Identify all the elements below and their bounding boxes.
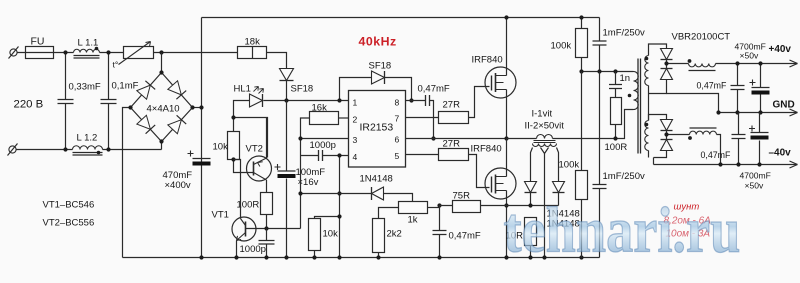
wire - bridge bottom AC feed bbox=[161, 142, 163, 150]
junction dot upper rect bbox=[664, 61, 668, 65]
svg-text:SF18: SF18 bbox=[369, 61, 392, 72]
capacitor 4700mF lower bbox=[759, 113, 761, 165]
wire - +310V top bus bbox=[202, 17, 600, 19]
wire - CT secondary center tap bbox=[541, 148, 549, 258]
capacitor 0,47mF output lower bbox=[738, 113, 740, 165]
wire - VT1 collector up to VT2 base bbox=[234, 160, 241, 219]
diode 1N4148 rectifier right bbox=[553, 182, 565, 193]
junction dot pin4/COM bbox=[337, 153, 341, 157]
svg-text:FU: FU bbox=[31, 37, 45, 48]
transformer T1 secondary lower bbox=[645, 121, 649, 151]
junction dot Q2 source sense bbox=[504, 203, 508, 207]
svg-text:×400v: ×400v bbox=[165, 180, 191, 191]
svg-text:1mF/250v: 1mF/250v bbox=[603, 171, 645, 182]
svg-text:6: 6 bbox=[395, 135, 400, 145]
junction dot sense node bbox=[437, 203, 441, 207]
arrow GND bbox=[790, 109, 798, 116]
wire - primary top to divider row bbox=[633, 71, 635, 73]
wire - 100k lower leads bbox=[581, 72, 583, 258]
svg-text:100k: 100k bbox=[551, 41, 572, 52]
bridge diode top-right arm bbox=[168, 81, 182, 95]
wire - choke lower to -40 row bbox=[717, 135, 721, 165]
transformer T1 core bbox=[638, 59, 641, 154]
wire - pin7 row bbox=[406, 117, 439, 119]
wire - sense row 75R bbox=[440, 205, 559, 207]
wire - 10R to bus bbox=[530, 246, 532, 258]
wire - pin2 to 16k bbox=[339, 117, 349, 119]
fuse FU bbox=[26, 47, 54, 59]
resistor 100R snubber bbox=[611, 98, 622, 125]
wire - Q2 drain to midpoint bbox=[506, 139, 508, 177]
capacitor 4700mF upper bbox=[760, 64, 762, 113]
svg-text:0,47mF: 0,47mF bbox=[449, 231, 481, 242]
wire - center tap to GND row bbox=[667, 94, 719, 113]
resistor 10k (lower) bbox=[309, 219, 321, 251]
wire - pin5 row bbox=[406, 154, 439, 156]
svg-text:75R: 75R bbox=[453, 191, 471, 202]
svg-text:0,47mF: 0,47mF bbox=[697, 81, 728, 91]
wire - VT2 collector to 100R bbox=[266, 180, 268, 193]
svg-text:VT2–BC556: VT2–BC556 bbox=[43, 218, 95, 229]
transistor VT1 (BC546) bbox=[232, 217, 256, 241]
wire - VT1 base row bbox=[246, 228, 301, 230]
svg-text:0,33mF: 0,33mF bbox=[69, 82, 101, 93]
svg-text:4700mF: 4700mF bbox=[740, 171, 771, 181]
capacitor 0,47mF bootstrap bbox=[426, 95, 430, 106]
wire - VT1 emitter to bus bbox=[236, 241, 238, 258]
diode SF18 bootstrap bbox=[372, 71, 385, 84]
junction dot 10k-COM bbox=[337, 214, 341, 218]
capacitor 100mF 16v Vcc bbox=[286, 101, 288, 258]
wire - clamp diode row bbox=[301, 194, 413, 202]
wire - 100R to VT1 base node bbox=[266, 215, 268, 229]
wire - 18k to SF18 anode bbox=[267, 53, 287, 69]
diode VBR lower C bbox=[661, 120, 673, 131]
svg-text:VBR20100CT: VBR20100CT bbox=[672, 32, 731, 43]
svg-text:1000p: 1000p bbox=[240, 244, 266, 255]
diode VBR lower D bbox=[661, 140, 673, 151]
arrow +40v bbox=[790, 60, 798, 67]
bridge diode bottom-left arm bbox=[137, 115, 151, 129]
wire - 10k lower to bus bbox=[314, 251, 316, 258]
svg-text:VT1: VT1 bbox=[212, 210, 229, 221]
resistor 100k upper bbox=[576, 29, 588, 58]
wire - lower rect junction row bbox=[667, 131, 690, 140]
svg-text:1: 1 bbox=[353, 98, 358, 108]
bridge diode top-left arm bbox=[137, 85, 151, 99]
junction dots mains rows bbox=[63, 50, 67, 54]
svg-text:10k: 10k bbox=[323, 229, 339, 240]
wire - Vcc row to IC pin1 bbox=[264, 100, 349, 102]
current transformer secondary 2x50vit bbox=[533, 144, 557, 147]
svg-text:×50v: ×50v bbox=[745, 181, 764, 191]
svg-text:220 В: 220 В bbox=[14, 99, 44, 111]
wire - CT secondary outer lead left bbox=[531, 148, 533, 182]
svg-text:3: 3 bbox=[353, 135, 358, 145]
current transformer core bbox=[534, 141, 556, 143]
junction dot Vcc node bbox=[284, 98, 288, 102]
junction dots bootstrap bbox=[337, 98, 341, 102]
svg-text:4: 4 bbox=[353, 152, 358, 162]
svg-text:0,47mF: 0,47mF bbox=[701, 150, 732, 160]
junction dot halfbridge midpoint bbox=[504, 136, 508, 140]
svg-text:I-1vit: I-1vit bbox=[532, 109, 553, 120]
svg-text:IRF840: IRF840 bbox=[472, 55, 503, 66]
svg-text:27R: 27R bbox=[443, 100, 461, 111]
resistor 27R lower bbox=[439, 149, 469, 161]
bridge diode bottom-right arm bbox=[168, 120, 182, 134]
junction dot lower rect bbox=[664, 132, 668, 136]
svg-text:16k: 16k bbox=[312, 103, 328, 114]
svg-text:4×4A10: 4×4A10 bbox=[147, 104, 180, 115]
wire - secondary link/center bbox=[648, 86, 650, 121]
terminal input bottom bbox=[9, 146, 16, 153]
junction dot sense-left diode bbox=[528, 203, 532, 207]
wire - +40v rail bbox=[716, 63, 798, 65]
terminal input top bbox=[10, 49, 17, 56]
wire - -40v rail bbox=[654, 164, 798, 166]
wire - 100k upper leads bbox=[581, 18, 583, 72]
capacitor 1mF/250v upper bbox=[599, 18, 601, 72]
transistor Q1 IRF840 upper bbox=[485, 67, 516, 98]
wire - 2k2 to bus bbox=[378, 253, 380, 258]
svg-text:5: 5 bbox=[395, 151, 400, 161]
wire - bridge top AC feed bbox=[161, 53, 163, 73]
svg-text:100k: 100k bbox=[559, 160, 580, 171]
svg-text:1n: 1n bbox=[620, 73, 631, 84]
resistor 10R burden bbox=[525, 218, 537, 246]
wire - Q1 source to midpoint bbox=[506, 90, 508, 139]
resistor 10k (upper) bbox=[228, 132, 240, 160]
wire - mains bottom line N (220V neutral row) bbox=[17, 149, 162, 151]
arrow -40v bbox=[790, 161, 798, 168]
junction dots -40 row bbox=[718, 162, 722, 166]
wire - mains top line L (220V live row) bbox=[18, 52, 238, 54]
junction dot snubber bbox=[613, 136, 617, 140]
svg-text:×50v: ×50v bbox=[740, 51, 759, 61]
wire - pin3 to timing node bbox=[301, 138, 349, 140]
wire - upper rect junction row bbox=[667, 60, 689, 69]
transformer T1 secondary upper bbox=[645, 56, 649, 86]
wire - VT2 emitter row bbox=[234, 118, 268, 158]
svg-text:7: 7 bbox=[395, 114, 400, 124]
wire - bottom 0V bus bbox=[123, 257, 600, 259]
svg-text:II-2×50vit: II-2×50vit bbox=[525, 121, 565, 132]
svg-text:+40v: +40v bbox=[769, 44, 792, 55]
resistor 75R bbox=[453, 201, 481, 213]
junction dot Q1 drain bus bbox=[504, 15, 508, 19]
resistor 16k timing bbox=[310, 112, 339, 125]
svg-text:HL1: HL1 bbox=[234, 84, 251, 95]
wire - upper diode B anode to tap bbox=[649, 80, 667, 94]
wire - 10k lower top to COM column bbox=[315, 217, 340, 219]
diode VBR upper B bbox=[661, 69, 673, 80]
svg-text:tehnari.ru: tehnari.ru bbox=[504, 194, 741, 265]
resistor 100k lower bbox=[576, 171, 588, 200]
diode SF18 rectifier bbox=[280, 69, 294, 81]
junction dot 100k top bus bbox=[579, 15, 583, 19]
junction dot timing node bbox=[298, 136, 302, 140]
svg-text:27R: 27R bbox=[443, 139, 461, 150]
capacitor 1mF/250v lower bbox=[599, 72, 601, 258]
resistor 2k2 bbox=[373, 219, 385, 253]
inductor L1.1 bbox=[74, 49, 100, 52]
svg-text:SF18: SF18 bbox=[291, 84, 314, 95]
junction dot VT1 base node bbox=[264, 226, 268, 230]
junction dots divider midpoint bbox=[579, 69, 583, 73]
resistor 27R upper bbox=[439, 112, 469, 124]
wire - bootstrap loop bbox=[340, 78, 412, 101]
svg-text:L 1.1: L 1.1 bbox=[78, 38, 99, 49]
transformer T1 primary bbox=[634, 72, 639, 110]
wire - upper winding top jog bbox=[649, 44, 667, 56]
diode 1N4148 clamp bbox=[372, 187, 384, 200]
wire - +310V rail column (bridge+ to top bus and down to 470mF) bbox=[201, 18, 203, 258]
wire - Q2 source to sense row and bus bbox=[506, 191, 508, 258]
wire - VT2 emitter up bbox=[266, 118, 268, 159]
wire - lower winding top jog bbox=[649, 115, 667, 121]
svg-text:10k: 10k bbox=[213, 142, 229, 153]
transistor VT2 (BC556) bbox=[247, 156, 272, 181]
svg-text:0,1mF: 0,1mF bbox=[112, 81, 139, 92]
svg-text:IR2153: IR2153 bbox=[360, 123, 394, 134]
svg-text:0,47mF: 0,47mF bbox=[418, 84, 450, 95]
inductor output choke lower bbox=[690, 131, 717, 134]
svg-text:1000p: 1000p bbox=[310, 140, 336, 151]
wire - Q1 drain to top bus bbox=[506, 18, 508, 76]
diode 1N4148 rectifier left bbox=[525, 182, 537, 193]
wire - 1k left to 2k2 bbox=[379, 208, 399, 219]
LED HL1 bbox=[250, 94, 263, 107]
wire - bridge plus output to rail bbox=[193, 107, 202, 109]
junction dots GND row bbox=[716, 110, 720, 114]
junction dot emitter row bbox=[231, 115, 235, 119]
junction dot pin6 node bbox=[431, 136, 435, 140]
junction dot clamp-timing bbox=[298, 191, 302, 195]
junction dots +40 row bbox=[735, 61, 739, 65]
svg-text:2: 2 bbox=[353, 115, 358, 125]
wire - bootstrap cap to pin6 node bbox=[430, 101, 434, 139]
wire - GND row bbox=[719, 112, 798, 114]
op-amp U1 IR2153 package bbox=[349, 91, 406, 168]
wire - lower diode D anode to tap bbox=[649, 151, 667, 165]
junction dots bridge corners bbox=[128, 105, 132, 109]
svg-text:VT1–BC546: VT1–BC546 bbox=[43, 200, 95, 211]
junction dots bottom bus bbox=[199, 255, 203, 259]
svg-text:8: 8 bbox=[395, 98, 400, 108]
wire - snubber to midpoint row bbox=[615, 125, 617, 139]
svg-text:VT2: VT2 bbox=[246, 144, 263, 155]
wire - upper gate lead bbox=[469, 87, 490, 118]
svg-text:t°: t° bbox=[113, 60, 119, 70]
svg-text:2k2: 2k2 bbox=[387, 229, 402, 240]
inductor output choke upper bbox=[689, 64, 716, 67]
wire - COM pin4 column down bbox=[339, 156, 341, 258]
svg-text:40kHz: 40kHz bbox=[359, 35, 397, 49]
svg-text:1N4148: 1N4148 bbox=[360, 174, 393, 185]
current transformer primary 1vit bbox=[537, 135, 553, 139]
transistor Q2 IRF840 lower bbox=[485, 168, 516, 199]
resistor 1k bbox=[399, 202, 428, 214]
diode VBR upper A bbox=[661, 49, 673, 60]
capacitor 1000p timing bbox=[319, 150, 323, 161]
wire - 1k right to sense node bbox=[428, 207, 440, 209]
resistor 100R (latch) bbox=[261, 193, 273, 215]
resistor 18k bbox=[238, 47, 267, 59]
wire - 16k left to timing node column bbox=[301, 118, 310, 229]
svg-text:1k: 1k bbox=[408, 215, 418, 226]
wire - midpoint row to primary bbox=[507, 110, 634, 139]
wire - negative DC rail from bridge to bottom bus bbox=[123, 108, 131, 258]
svg-text:18k: 18k bbox=[245, 37, 261, 48]
svg-text:IRF840: IRF840 bbox=[471, 144, 502, 155]
wire - HL1 anode to 10k bbox=[234, 101, 250, 132]
svg-text:GND: GND bbox=[773, 100, 795, 111]
wire - CT secondary outer lead right bbox=[557, 148, 559, 182]
capacitor 0,33mF X-cap bbox=[65, 53, 67, 150]
wire - lower gate lead bbox=[469, 155, 490, 188]
wire - pin8 row bbox=[406, 100, 426, 102]
junction dot VT1 collector join bbox=[231, 157, 235, 161]
wire - divider midpoint row bbox=[582, 71, 634, 73]
capacitor 0,47mF sense filter bbox=[439, 206, 441, 258]
capacitor 1n snubber bbox=[615, 72, 617, 98]
svg-text:L 1.2: L 1.2 bbox=[77, 133, 98, 144]
thermistor t (NTC) bbox=[124, 47, 154, 59]
capacitor 1000p (at VT1) bbox=[266, 229, 268, 258]
capacitor 470mF 400v bulk electrolytic bbox=[193, 158, 211, 160]
svg-text:–40v: –40v bbox=[769, 148, 792, 159]
wire - pin6 row to midpoint bbox=[406, 138, 507, 140]
svg-text:1mF/250v: 1mF/250v bbox=[603, 28, 645, 39]
capacitor 0,1mF X-cap bbox=[108, 53, 110, 150]
wire - 10k to VT2 base bbox=[234, 160, 254, 173]
wire - 1000p timing leads bbox=[301, 155, 349, 157]
wire - diode outputs to sense row bbox=[531, 193, 559, 206]
capacitor 0,47mF output upper bbox=[737, 64, 739, 113]
svg-text:100R: 100R bbox=[605, 142, 628, 153]
wire - SF18 cathode to Vcc node bbox=[286, 81, 288, 101]
diode bridge 4x4A10 diamond bbox=[131, 73, 193, 142]
inductor L1.2 bbox=[73, 146, 103, 150]
